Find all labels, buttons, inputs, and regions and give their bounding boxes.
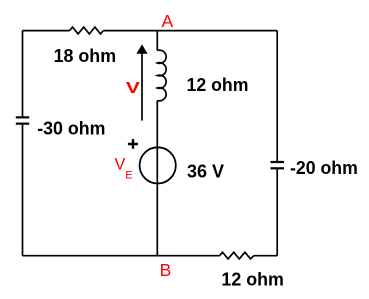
inductor L1 12 ohm — [157, 50, 166, 101]
wire bottom-right segment — [254, 255, 277, 257]
svg-text:V: V — [126, 80, 140, 97]
wire top-right segment — [103, 30, 277, 32]
svg-text:12 ohm: 12 ohm — [187, 75, 249, 95]
capacitor C1 -30 ohm — [16, 117, 29, 123]
svg-text:-20 ohm: -20 ohm — [290, 158, 358, 178]
polarity plus sign — [128, 139, 138, 149]
wire right upper segment — [276, 31, 278, 161]
voltage source U1 36 V — [140, 147, 176, 183]
capacitor C2 -20 ohm — [271, 162, 285, 168]
resistor R2 12 ohm — [220, 252, 254, 259]
wire middle branch upper — [156, 31, 158, 51]
svg-text:-30 ohm: -30 ohm — [37, 118, 105, 138]
svg-text:B: B — [160, 260, 172, 280]
wire middle branch lower — [156, 101, 158, 256]
svg-text:18 ohm: 18 ohm — [54, 46, 117, 66]
resistor R1 18 ohm — [70, 27, 104, 34]
wire left upper segment — [22, 31, 24, 117]
svg-text:V: V — [115, 156, 126, 174]
svg-text:A: A — [162, 11, 174, 31]
voltage arrow V — [141, 54, 143, 121]
svg-text:E: E — [125, 170, 132, 182]
wire right lower segment — [276, 169, 278, 255]
svg-text:36 V: 36 V — [187, 161, 224, 181]
wire left lower segment — [22, 125, 24, 256]
wire bottom-left segment — [23, 255, 220, 257]
svg-text:12 ohm: 12 ohm — [221, 269, 284, 289]
wire top-left segment — [23, 30, 70, 32]
